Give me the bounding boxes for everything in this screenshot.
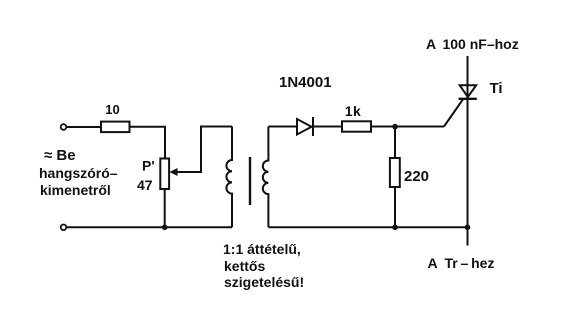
wire thyristor gate [444,100,463,127]
node junction pot bottom [162,225,168,231]
svg-text:1N4001: 1N4001 [279,74,332,91]
wire [371,126,444,128]
svg-text:47: 47 [137,177,153,193]
resistor 10 [101,102,130,132]
label A Tr-hez [428,255,495,271]
svg-text:Ti: Ti [490,80,503,97]
svg-text:1:1 áttételű,: 1:1 áttételű, [223,241,301,257]
svg-text:220: 220 [404,168,429,185]
wire 220 top lead [394,127,396,159]
wire bottom left [67,226,233,228]
svg-text:kettős: kettős [224,258,265,274]
svg-text:kimenetről: kimenetről [40,182,111,198]
wire stub to A Tr-hez [467,227,469,245]
wire [130,127,166,159]
potentiometer P' 47 [137,158,178,194]
resistor 1k [342,103,371,132]
wire [67,126,102,128]
diode 1N4001 [279,74,332,136]
thyristor Ti [459,56,503,227]
svg-text:10: 10 [105,102,119,117]
svg-text:≈ Be: ≈ Be [44,147,76,164]
transformer T1 secondary winding [263,127,269,228]
node junction thyristor cathode bottom [465,225,471,231]
terminal input top [61,124,67,130]
node junction 1k/220 [392,124,398,130]
transformer T1 primary winding [226,127,232,228]
wire 220 bottom lead [394,187,396,227]
svg-text:1k: 1k [345,103,362,119]
label A 100 nF-hoz [426,36,519,52]
svg-text:A 100 nF–hoz: A 100 nF–hoz [426,36,519,52]
svg-text:P': P' [142,158,155,174]
svg-text:hangszóró–: hangszóró– [39,165,118,181]
terminal input bottom [61,225,67,231]
wire pot bottom [164,189,166,227]
label ≈ Be hangszóró-kimenetről [39,147,118,198]
node junction 220 bottom [392,225,398,231]
wire wiper to transformer primary top [177,127,233,173]
transformer core [249,157,251,205]
wire secondary top [268,126,297,128]
svg-text:szigetelésű!: szigetelésű! [224,274,304,290]
resistor 220 [390,158,429,187]
wire [313,126,342,128]
wire bottom secondary [268,226,467,228]
label 1:1 áttételű, kettős szigetelésű! [223,241,304,290]
